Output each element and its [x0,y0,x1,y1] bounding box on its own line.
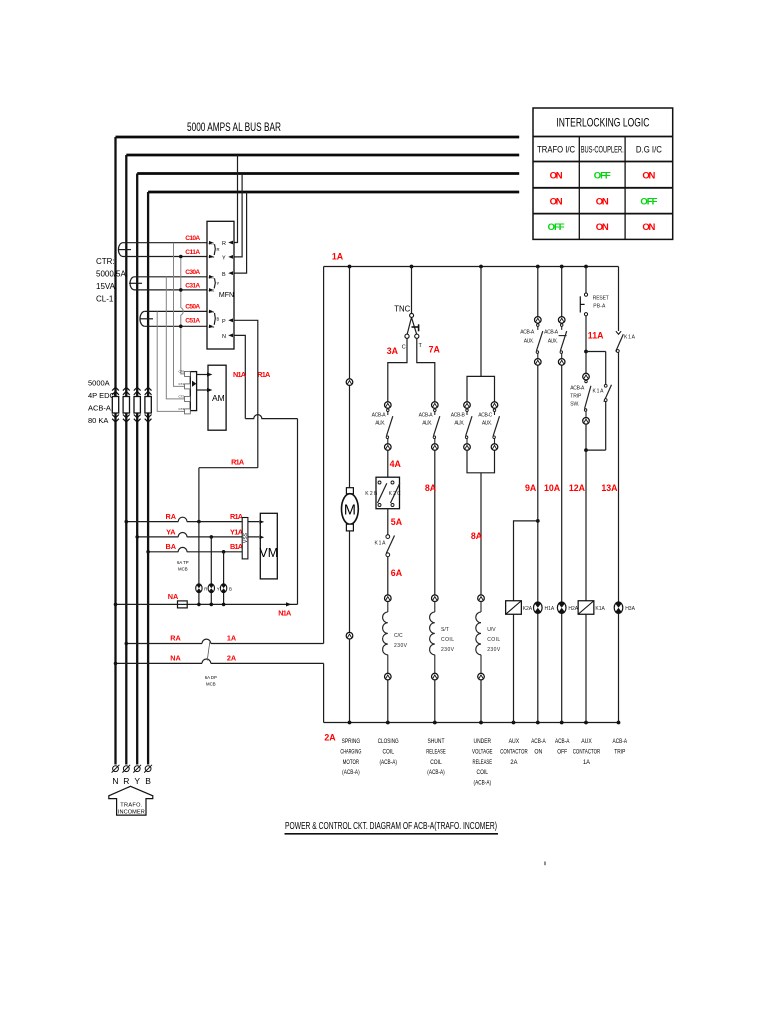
svg-text:NA: NA [168,592,179,601]
svg-text:TRIP: TRIP [570,394,582,400]
svg-text:ACB-A: ACB-A [372,413,387,419]
svg-text:5A: 5A [391,517,403,527]
arrow on N1A line [286,602,291,606]
svg-text:AUX.: AUX. [524,339,534,345]
svg-text:S/T: S/T [441,627,449,633]
control bottom bus 2A [324,722,619,724]
wire ASS to AM pin 2 [197,389,209,391]
shunt release coil S/T 230V [430,595,439,680]
connector motor top [346,379,353,386]
svg-text:AUX: AUX [581,738,592,745]
svg-text:C70: C70 [178,370,184,374]
wire motor to bottom bus [349,639,351,722]
svg-text:MOTOR: MOTOR [343,759,360,766]
svg-text:NA: NA [170,653,181,662]
svg-text:COIL: COIL [430,759,442,766]
svg-text:AUX.: AUX. [454,421,464,427]
svg-text:K1A: K1A [593,389,605,395]
wire N phase vertical [114,137,116,765]
terminal B [144,765,152,773]
svg-text:CHARGING: CHARGING [340,748,361,755]
svg-text:13A: 13A [601,483,618,493]
svg-text:ON: ON [596,222,609,233]
svg-text:CS1: CS1 [209,275,215,279]
bus bar line 1 (N) [116,136,520,139]
contactor block K2B K2C [365,477,401,509]
svg-text:2A: 2A [510,759,518,766]
terminal R [122,765,130,773]
wire to K2 box [387,450,389,477]
wire N1A down to NA line [297,419,299,605]
svg-text:OFF: OFF [548,222,565,233]
svg-text:230V: 230V [394,643,408,649]
svg-text:15VA,: 15VA, [96,282,117,291]
svg-text:MCB: MCB [178,567,188,572]
svg-text:CS2: CS2 [209,289,215,293]
wire 9A column mid [537,365,539,602]
column label ACB-A ON [531,738,546,755]
svg-text:ON: ON [642,222,655,233]
svg-text:RELEASE: RELEASE [473,759,493,766]
motor column wire upper [349,267,351,379]
indicator lamp R [196,584,208,593]
junction dots bottom bus [348,721,621,725]
svg-text:10A: 10A [544,483,561,493]
svg-text:1A: 1A [227,634,237,643]
svg-text:U/V: U/V [487,627,496,633]
svg-text:CS2: CS2 [209,325,215,329]
wire BA voltmeter line [148,551,248,553]
svg-text:CLOSING: CLOSING [378,738,399,745]
svg-text:6A DP: 6A DP [205,675,217,680]
svg-text:OFF: OFF [594,170,611,181]
contact K1A small [375,535,395,557]
svg-text:ON: ON [550,196,563,207]
wire H3A to bus [618,613,620,722]
wire trip sw to junction bottom [585,424,587,450]
svg-text:ACB-A: ACB-A [520,330,535,336]
wire 12A column upper [585,267,587,294]
control top bus 1A [324,266,619,268]
svg-text:N: N [112,776,118,786]
svg-text:INTERLOCKING LOGIC: INTERLOCKING LOGIC [556,116,649,130]
junction dots top bus [348,265,588,269]
ammeter AM [208,365,226,430]
push button RESET PB-A [580,293,609,316]
wire 10A column mid [561,365,563,602]
svg-text:CONTACTOR: CONTACTOR [500,748,528,755]
svg-text:C10A: C10A [185,235,200,242]
svg-text:C72: C72 [178,395,184,399]
svg-text:B: B [145,776,151,786]
svg-text:4A: 4A [390,459,402,469]
svg-text:AUX.: AUX. [375,421,385,427]
wire 10A column upper [561,267,563,317]
svg-text:VSS: VSS [243,532,249,543]
column label AUX CONTACTOR 1A [573,738,601,766]
contact ACB-B AUX [464,402,472,451]
interlocking logic table [533,108,673,239]
svg-text:B: B [229,587,232,592]
relay coil K2A [506,601,522,615]
svg-text:4P EDO: 4P EDO [88,391,116,400]
contact ACB-A AUX (shunt) [432,402,440,451]
CT secondary wire C10A to selector [174,243,185,387]
svg-text:Y: Y [134,776,140,786]
svg-text:UNDER: UNDER [474,738,492,745]
wire TNC T to shunt branch [417,338,435,401]
breaker ACB-A pole B [145,387,152,422]
svg-text:OFF: OFF [557,748,567,755]
svg-text:TRAFO I/C: TRAFO I/C [537,145,575,156]
svg-text:(ACB-A): (ACB-A) [427,769,445,776]
svg-text:CONTACTOR: CONTACTOR [573,748,601,755]
svg-text:RELEASE: RELEASE [426,748,446,755]
closing coil C/C 230V [383,595,392,680]
under voltage coil U/V 230V [476,595,485,680]
svg-text:ACB-A: ACB-A [613,738,628,745]
wire 12A column mid [585,450,587,601]
wire coil to bus [387,680,389,723]
svg-text:ON: ON [550,170,563,181]
junction trip parallel bottom [584,448,588,452]
breaker ACB-A pole R [123,387,130,422]
svg-text:CL-1: CL-1 [96,295,114,304]
svg-text:8A: 8A [471,531,483,541]
svg-text:5000 AMPS AL BUS BAR: 5000 AMPS AL BUS BAR [187,122,281,134]
svg-text:RA: RA [170,634,181,643]
junction C51A common [179,325,183,329]
svg-text:ACB-A: ACB-A [555,738,570,745]
svg-text:TRIP: TRIP [614,748,625,755]
wire shunt mid [434,450,436,594]
wire drop from R bus to MFM R pin [234,155,238,243]
svg-text:YA: YA [166,527,176,536]
svg-text:Y: Y [222,256,226,262]
wire K2A branch [514,521,538,601]
wire drop from Y bus to MFM Y pin [234,174,242,257]
bus bar line 3 (Y) [137,172,519,175]
wire NA / 2A MCB line [116,662,324,664]
svg-text:Y: Y [217,587,220,592]
wire to trip switch [585,352,587,374]
wire below motor [349,531,351,632]
svg-text:RA: RA [166,512,177,521]
breaker ACB-A pole N [112,387,119,422]
lamp H2A [557,602,566,613]
lamp H1A [534,602,543,613]
wire 13A column mid [618,352,620,602]
svg-text:ACB-C: ACB-C [478,413,492,419]
svg-text:H3A: H3A [625,606,635,612]
control left rail lower [323,663,325,722]
svg-text:1A: 1A [583,759,591,766]
column label UNDER VOLTAGE RELEASE COIL (ACB-A) [472,738,493,787]
contact K1A parallel [593,352,612,451]
svg-text:7A: 7A [429,345,441,355]
wire lamp B drop [223,552,225,605]
svg-text:R: R [123,776,129,786]
wire shunt coil to bus [434,680,436,723]
junction K2A branch [536,519,540,523]
svg-text:Y: Y [217,281,220,286]
junction C31A common [179,288,183,292]
svg-text:R1A: R1A [231,458,245,467]
CT R phase (C10A/C11A) [118,243,207,257]
fuse NA [178,601,188,608]
svg-text:CS1: CS1 [209,310,215,314]
wire 13A column upper [618,267,620,332]
junction C11A common [179,255,183,259]
wire to motor [349,386,351,488]
column label ACB-A OFF [555,738,570,755]
svg-text:(ACB-A): (ACB-A) [474,780,492,787]
bus bar line 4 (B) [148,191,519,194]
wire K1A coil to bus [585,614,587,722]
svg-text:SHUNT: SHUNT [428,738,445,745]
wire R phase vertical [125,155,127,765]
svg-text:ON: ON [642,170,655,181]
svg-text:K1A: K1A [595,606,605,612]
svg-text:CTR:: CTR: [96,257,115,266]
svg-text:C71: C71 [178,382,184,386]
svg-text:C30A: C30A [185,269,200,276]
svg-text:RESET: RESET [593,296,609,302]
column label ACB-A TRIP [613,738,628,755]
contact ACB-C AUX [491,402,499,451]
svg-text:B: B [222,272,226,278]
svg-text:H1A: H1A [545,606,555,612]
svg-text:K1A: K1A [375,541,387,547]
svg-text:ACB-A: ACB-A [419,413,434,419]
MFM left terminal pair Y [209,275,220,293]
column label SPRING CHARGING MOTOR (ACB-A) [340,738,361,776]
svg-text:COIL: COIL [477,769,489,776]
svg-text:H2A: H2A [568,606,578,612]
svg-text:(ACB-A): (ACB-A) [342,769,360,776]
svg-text:MCB: MCB [206,682,216,687]
svg-text:K2C: K2C [389,491,401,497]
svg-text:SPRING: SPRING [342,738,361,745]
svg-text:5000/5A,: 5000/5A, [96,270,128,279]
UV parallel branch feed [480,267,482,377]
svg-text:12A: 12A [569,483,586,493]
svg-text:C31A: C31A [185,283,200,290]
wire MFM P pin to R1A vertical [234,320,258,467]
wire to closing coil [387,557,389,595]
svg-text:AUX: AUX [509,738,520,745]
svg-text:C/C: C/C [394,633,403,639]
wire H2A to bus [561,613,563,722]
svg-text:ACB-A: ACB-A [570,386,585,392]
svg-text:3A: 3A [387,346,399,356]
svg-text:TNC: TNC [394,305,410,314]
svg-text:80 KA: 80 KA [88,416,108,425]
wire trip parallel bottom [586,449,606,451]
svg-text:BUS-COUPLER.: BUS-COUPLER. [581,145,624,156]
TNC selector switch [394,267,422,351]
svg-text:ON: ON [534,748,542,755]
mcb pole tie [207,641,210,661]
CT secondary wire C50A to selector [157,311,184,411]
svg-text:COIL: COIL [487,637,500,643]
CT Y phase (C30A/C31A) [129,277,207,290]
bus bar line 2 (R) [126,154,519,157]
wire trip parallel top [586,351,606,353]
MFM left terminal pair R [209,241,220,259]
wire lamp R drop [198,468,200,605]
wire H1A to bus [537,613,539,722]
wire R1A horizontal to lamp rail [199,467,258,469]
svg-text:AM: AM [212,393,225,403]
UV parallel branch frame [467,376,495,472]
wire N1A horizontal with hop over R1A [245,415,297,419]
svg-text:D.G I/C: D.G I/C [636,145,662,156]
svg-text:9A: 9A [525,483,537,493]
svg-text:C51A: C51A [185,317,200,324]
svg-text:COIL: COIL [382,748,394,755]
CT secondary wire C30A to selector [166,277,184,399]
terminal Y [133,765,141,773]
svg-text:BA: BA [166,542,177,551]
column label CLOSING COIL (ACB-A) [378,738,399,766]
svg-text:R: R [217,247,220,252]
wire ASS to AM pin 1 [197,374,209,376]
wire B phase vertical [147,192,149,765]
motor M spring charging [342,488,359,531]
control left rail upper [323,267,325,644]
svg-text:AUX.: AUX. [482,421,492,427]
svg-text:B: B [217,316,220,321]
svg-text:TRAFO.: TRAFO. [120,803,142,809]
svg-text:K2B: K2B [365,491,378,497]
svg-text:ACB-A,: ACB-A, [88,404,113,413]
wire TNC C to closing branch [388,338,407,401]
wire RA / 1A MCB line [126,643,323,645]
contact K1A (trip lamp) [616,331,636,352]
svg-text:5000A: 5000A [88,379,110,388]
svg-text:6A TP: 6A TP [177,560,189,565]
svg-text:MFN: MFN [219,292,234,299]
svg-text:P: P [222,319,226,325]
svg-text:AUX.: AUX. [422,421,432,427]
svg-text:2A: 2A [324,733,336,743]
voltmeter selector VSS [242,518,248,559]
contact ACB-A AUX (on lamp) [535,317,543,366]
svg-text:INCOMER: INCOMER [118,810,145,816]
breaker ACB-A pole Y [134,387,141,422]
svg-text:M: M [344,503,356,519]
trip switch ACB-A TRIP SW [570,373,591,424]
svg-text:C11A: C11A [185,249,200,256]
svg-text:2A: 2A [227,653,237,662]
svg-text:AUX.: AUX. [548,339,558,345]
contact ACB-A AUX (closing) [385,402,393,451]
svg-text:N1A: N1A [233,370,247,379]
svg-text:C50A: C50A [185,303,200,310]
stray tick mark [544,862,546,866]
wire YA voltmeter line [137,536,259,538]
multifunction meter MFM box [207,221,234,349]
svg-text:OFF: OFF [640,196,657,207]
lamp H3A [614,602,623,613]
svg-text:N: N [222,334,226,340]
svg-text:ON: ON [596,196,609,207]
svg-text:8A: 8A [425,483,437,493]
wire PB to junction [585,316,587,352]
svg-text:ACB-A: ACB-A [531,738,546,745]
column label AUX CONTACTOR 2A [500,738,528,766]
svg-text:CS1: CS1 [209,241,215,245]
svg-text:COIL: COIL [441,637,454,643]
svg-text:C73: C73 [178,407,184,411]
wire below K2 box [387,509,389,535]
svg-text:K2A: K2A [523,606,533,612]
svg-text:11A: 11A [588,331,604,341]
relay coil K1A [578,601,594,615]
svg-text:SW.: SW. [570,402,579,408]
terminal N [112,765,120,773]
wire Y phase vertical [136,174,138,765]
wire NA line [116,603,298,605]
wire K2A to bus [513,614,515,722]
wire MFM N pin to N1A vertical [234,335,245,418]
connector motor bottom [346,632,353,639]
contact ACB-A AUX NC (off lamp) [558,317,566,366]
svg-text:K1A: K1A [624,335,636,341]
svg-text:230V: 230V [441,647,455,653]
svg-text:R: R [204,587,207,592]
svg-text:(ACB-A): (ACB-A) [379,759,397,766]
wire lamp Y drop [210,537,212,605]
svg-text:PB-A: PB-A [593,304,606,310]
svg-text:N1A: N1A [278,609,292,618]
svg-text:POWER & CONTROL CKT. DIAGRAM O: POWER & CONTROL CKT. DIAGRAM OF ACB-A(TR… [285,821,497,832]
voltmeter VM [260,513,277,579]
svg-text:ACB-B: ACB-B [451,413,466,419]
indicator lamp B [220,584,232,593]
CT secondary common wire (C11A/C31A/C51A) to selector [181,257,185,374]
svg-text:CS2: CS2 [209,255,215,259]
wire 9A column upper [537,267,539,317]
svg-text:VM: VM [259,546,278,560]
ammeter selector switch ASS [178,370,196,414]
wire UV coil to bus [480,680,482,723]
wire drop from B bus to MFM B pin [234,192,247,273]
column label SHUNT RELEASE COIL (ACB-A) [426,738,446,776]
MFM left terminal pair B [209,310,220,329]
svg-text:C: C [402,345,406,351]
svg-text:6A: 6A [391,568,403,578]
svg-text:1A: 1A [332,252,344,262]
incomer arrow house [109,786,153,815]
svg-text:R: R [222,241,226,247]
svg-text:R1A: R1A [257,370,271,379]
svg-text:230V: 230V [487,647,501,653]
junction trip parallel top [584,350,588,354]
wire RA voltmeter line [126,521,259,523]
indicator lamp Y [208,584,220,593]
CT B phase (C50A/C51A) [140,311,207,326]
svg-text:VOLTAGE: VOLTAGE [472,748,493,755]
wire UV branch output [480,473,482,595]
svg-text:ACB-A: ACB-A [544,330,559,336]
